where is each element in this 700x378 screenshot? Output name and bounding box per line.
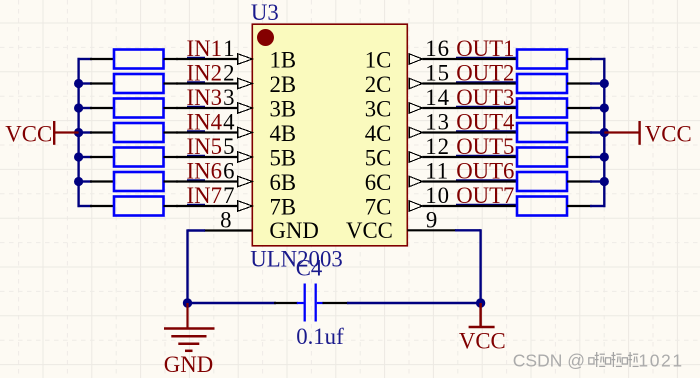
wire resistor to U3 pin 2 <box>176 82 239 83</box>
svg-text:14: 14 <box>425 85 450 110</box>
pin arrow output row 1 <box>409 54 422 64</box>
svg-text:1: 1 <box>223 36 234 61</box>
pin name 4B <box>270 121 297 146</box>
net label IN1 <box>187 36 222 61</box>
svg-text:1021: 1021 <box>638 350 683 370</box>
resistor output row 2 <box>517 74 592 93</box>
svg-text:4: 4 <box>223 109 235 134</box>
net label OUT1 <box>456 36 514 61</box>
wire resistor to U3 pin 6 <box>176 180 239 181</box>
svg-text:OUT5: OUT5 <box>456 134 514 159</box>
pin arrow output row 6 <box>409 176 422 186</box>
svg-text:OUT6: OUT6 <box>456 158 514 183</box>
net label OUT5 <box>456 134 514 159</box>
wire left bus to input resistor row 7 <box>78 205 93 207</box>
pin number 15 <box>425 60 450 85</box>
svg-text:9: 9 <box>426 207 437 232</box>
svg-text:3: 3 <box>223 85 234 110</box>
wire U3 pin 14 to output resistor <box>422 107 517 108</box>
junction left bus row 5 <box>74 152 83 161</box>
net label IN7 <box>187 183 222 208</box>
pin arrow input row 3 <box>238 103 253 113</box>
junction left bus row 6 <box>74 177 83 186</box>
power port VCC bottom <box>459 303 506 354</box>
pin arrow input row 2 <box>238 78 253 88</box>
pin number 3 <box>223 85 234 110</box>
wire output resistor to right bus row 1 <box>590 58 605 60</box>
wire U3 pin 9 (VCC) <box>407 229 480 303</box>
wire bottom left (junction to C4) <box>188 302 277 304</box>
svg-text:5B: 5B <box>270 146 297 171</box>
pin number 12 <box>425 134 450 159</box>
pin arrow output row 5 <box>409 152 422 162</box>
svg-text:2C: 2C <box>365 72 392 97</box>
pin number 16 <box>425 36 450 61</box>
resistor output row 3 <box>517 99 592 118</box>
resistor input row 3 <box>90 99 178 118</box>
svg-text:VCC: VCC <box>459 329 506 354</box>
wire resistor to U3 pin 5 <box>176 156 239 157</box>
junction left bus row 3 <box>74 103 83 112</box>
resistor output row 5 <box>517 148 592 167</box>
svg-text:C4: C4 <box>296 255 323 280</box>
svg-text:5C: 5C <box>365 146 392 171</box>
part type ULN2003 <box>250 246 342 271</box>
net label IN3 <box>187 85 222 110</box>
svg-text:CSDN @: CSDN @ <box>513 350 585 370</box>
resistor output row 1 <box>517 50 592 69</box>
svg-text:15: 15 <box>425 60 450 85</box>
pin number 6 <box>223 158 234 183</box>
pin name VCC <box>346 218 393 243</box>
wire output resistor to right bus row 4 <box>590 131 605 133</box>
resistor input row 6 <box>90 172 178 191</box>
op-amp U3 ULN2003 body <box>252 24 407 246</box>
junction right bus row 2 <box>600 79 609 88</box>
resistor input row 4 <box>90 123 178 142</box>
net label OUT6 <box>456 158 514 183</box>
svg-text:7: 7 <box>223 183 234 208</box>
svg-text:GND: GND <box>269 218 318 243</box>
net label IN4 <box>187 109 223 134</box>
pin name 2C <box>365 72 392 97</box>
pin number 4 <box>223 109 235 134</box>
pin name 4C <box>365 121 392 146</box>
wire output resistor to right bus row 6 <box>590 180 605 182</box>
wire U3 pin 11 to output resistor <box>422 180 517 181</box>
wire left bus to input resistor row 4 <box>78 131 93 133</box>
wire output resistor to right bus row 2 <box>590 82 605 84</box>
resistor output row 6 <box>517 172 592 191</box>
svg-text:OUT1: OUT1 <box>456 36 514 61</box>
svg-text:5: 5 <box>223 134 234 159</box>
svg-text:IN2: IN2 <box>187 60 222 85</box>
designator U3 <box>251 0 279 25</box>
net label OUT2 <box>456 60 514 85</box>
wire resistor to U3 pin 3 <box>176 107 239 108</box>
junction right bus row 4 <box>600 128 609 137</box>
svg-text:OUT2: OUT2 <box>456 60 514 85</box>
svg-text:3B: 3B <box>270 97 297 122</box>
pin name 7B <box>270 195 297 220</box>
svg-text:OUT7: OUT7 <box>456 183 514 208</box>
net label IN2 <box>187 60 222 85</box>
wire left VCC bus vertical <box>77 58 79 207</box>
ground GND <box>164 303 215 377</box>
U3 pin-1 marker dot <box>257 29 274 46</box>
pin number 2 <box>223 60 234 85</box>
wire resistor to U3 pin 1 <box>176 58 239 59</box>
pin arrow input row 5 <box>238 152 253 162</box>
wire output resistor to right bus row 5 <box>590 156 605 158</box>
wire left bus to input resistor row 3 <box>78 107 93 109</box>
svg-text:IN6: IN6 <box>187 158 222 183</box>
pin name 2B <box>270 72 297 97</box>
designator C4 <box>296 255 323 280</box>
wire resistor to U3 pin 4 <box>176 131 239 132</box>
svg-text:13: 13 <box>425 109 450 134</box>
resistor output row 4 <box>517 123 592 142</box>
pin name 1C <box>365 48 392 73</box>
wire output resistor to right bus row 7 <box>590 205 605 207</box>
pin name 5B <box>270 146 297 171</box>
svg-text:3C: 3C <box>365 97 392 122</box>
wire left bus to input resistor row 2 <box>78 82 93 84</box>
pin number 1 <box>223 36 234 61</box>
pin number 5 <box>223 134 234 159</box>
net label OUT3 <box>456 85 514 110</box>
pin number 13 <box>425 109 450 134</box>
wire U3 pin 16 to output resistor <box>422 58 517 59</box>
svg-text:IN3: IN3 <box>187 85 222 110</box>
net label OUT7 <box>456 183 514 208</box>
pin number 11 <box>425 158 449 183</box>
svg-text:6C: 6C <box>365 170 392 195</box>
wire left bus to input resistor row 1 <box>78 58 93 60</box>
svg-text:7C: 7C <box>365 195 392 220</box>
pin name 7C <box>365 195 392 220</box>
wire U3 pin 8 (GND) <box>188 229 253 303</box>
net label IN5 <box>187 134 222 159</box>
svg-text:6: 6 <box>223 158 234 183</box>
svg-text:0.1uf: 0.1uf <box>296 324 344 349</box>
pin number 10 <box>425 183 450 208</box>
pin name 3C <box>365 97 392 122</box>
svg-text:8: 8 <box>220 207 231 232</box>
svg-text:2B: 2B <box>270 72 297 97</box>
junction right bus row 5 <box>600 152 609 161</box>
svg-text:7B: 7B <box>270 195 297 220</box>
junction right bus row 3 <box>600 103 609 112</box>
svg-text:IN4: IN4 <box>187 109 223 134</box>
power port VCC right <box>604 121 691 146</box>
svg-text:16: 16 <box>425 36 450 61</box>
svg-text:4C: 4C <box>365 121 392 146</box>
pin arrow output row 3 <box>409 103 422 113</box>
pin arrow input row 7 <box>238 201 253 211</box>
pin number 14 <box>425 85 450 110</box>
pin arrow input row 6 <box>238 176 253 186</box>
wire U3 pin 10 to output resistor <box>422 205 517 206</box>
svg-text:VCC: VCC <box>645 121 692 146</box>
svg-text:1B: 1B <box>270 48 297 73</box>
svg-text:VCC: VCC <box>5 121 52 146</box>
svg-text:11: 11 <box>425 158 449 183</box>
svg-text:IN7: IN7 <box>187 183 222 208</box>
capacitor C4 <box>274 284 349 322</box>
pin number 7 <box>223 183 234 208</box>
junction GND node <box>183 298 192 307</box>
junction right bus row 6 <box>600 177 609 186</box>
value 0.1uf <box>296 324 344 349</box>
resistor input row 1 <box>90 50 178 69</box>
wire U3 pin 12 to output resistor <box>422 156 517 157</box>
wire resistor to U3 pin 7 <box>176 205 239 206</box>
net label OUT4 <box>456 109 515 134</box>
junction VCC node <box>476 298 485 307</box>
pin number 9 <box>426 207 437 232</box>
pin arrow output row 2 <box>409 78 422 88</box>
wire left bus to input resistor row 6 <box>78 180 93 182</box>
svg-text:OUT3: OUT3 <box>456 85 514 110</box>
wire U3 pin 13 to output resistor <box>422 131 517 132</box>
pin name GND <box>269 218 318 243</box>
svg-text:OUT4: OUT4 <box>456 109 515 134</box>
resistor input row 2 <box>90 74 178 93</box>
wire left bus to input resistor row 5 <box>78 156 93 158</box>
svg-text:VCC: VCC <box>346 218 393 243</box>
pin arrow output row 7 <box>409 201 422 211</box>
pin arrow output row 4 <box>409 127 422 137</box>
svg-text:1C: 1C <box>365 48 392 73</box>
pin arrow input row 4 <box>238 127 253 137</box>
wire U3 pin 15 to output resistor <box>422 82 517 83</box>
wire output resistor to right bus row 3 <box>590 107 605 109</box>
wire bottom right (C4 to VCC junction) <box>347 302 481 304</box>
wire right VCC bus vertical <box>603 58 605 207</box>
resistor output row 7 <box>517 197 592 216</box>
svg-text:6B: 6B <box>270 170 297 195</box>
pin name 3B <box>270 97 297 122</box>
pin number 8 <box>220 207 231 232</box>
svg-text:12: 12 <box>425 134 450 159</box>
power port VCC left <box>5 121 78 146</box>
resistor input row 5 <box>90 148 178 167</box>
pin name 6C <box>365 170 392 195</box>
watermark CSDN @lalala1021 <box>513 350 684 370</box>
pin name 5C <box>365 146 392 171</box>
svg-text:U3: U3 <box>251 0 279 25</box>
svg-text:GND: GND <box>164 352 213 377</box>
pin name 1B <box>270 48 297 73</box>
pin arrow input row 1 <box>238 54 253 64</box>
svg-text:10: 10 <box>425 183 450 208</box>
svg-text:4B: 4B <box>270 121 297 146</box>
resistor input row 7 <box>90 197 178 216</box>
svg-text:IN5: IN5 <box>187 134 222 159</box>
junction left bus row 2 <box>74 79 83 88</box>
pin name 6B <box>270 170 297 195</box>
net label IN6 <box>187 158 222 183</box>
svg-text:2: 2 <box>223 60 234 85</box>
svg-text:IN1: IN1 <box>187 36 222 61</box>
junction left bus row 4 <box>74 128 83 137</box>
